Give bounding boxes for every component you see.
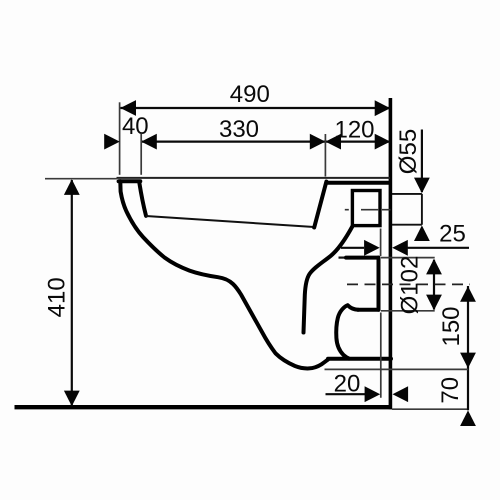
- svg-text:330: 330: [219, 116, 259, 143]
- extension line 330/120 boundary: [324, 134, 326, 177]
- dim row2 line: [141, 141, 390, 143]
- extension line front (490/40 left): [119, 102, 121, 175]
- svg-text:70: 70: [437, 377, 464, 404]
- dim 20 left arrow (points right): [365, 386, 381, 402]
- O55 outlet box behind wall: [392, 194, 422, 225]
- dim 410 top arrow: [64, 179, 80, 195]
- dim 150/70 boundary arrow (down): [460, 353, 476, 369]
- outlet top line: [346, 256, 379, 260]
- extension line 20: [380, 313, 382, 398]
- toilet rim top thin line: [117, 177, 391, 179]
- inlet spud box: [352, 191, 380, 226]
- dim O55 bottom arrow (up): [414, 225, 430, 241]
- dim O55 top arrow (down): [414, 178, 430, 194]
- dim 150 top arrow (up): [460, 286, 476, 302]
- toilet trap front curve (ends free): [304, 227, 353, 333]
- toilet front pad top thick: [119, 179, 141, 183]
- svg-text:150: 150: [438, 306, 465, 346]
- floor extension line right of wall: [392, 408, 468, 410]
- outlet end face: [377, 258, 381, 310]
- dim 25 left arrow (points right): [364, 240, 380, 256]
- toilet front outer curve: [120, 181, 328, 368]
- dim 25 left tail: [341, 247, 364, 249]
- dim 330 right arrow: [310, 134, 326, 150]
- svg-text:Ø102: Ø102: [396, 256, 423, 315]
- bottom reference extension line: [325, 368, 469, 370]
- toilet bottom back line: [328, 357, 391, 361]
- dim 20 right arrow (points left): [393, 386, 409, 402]
- dim 410 bottom arrow: [64, 391, 80, 407]
- toilet back deck thick: [327, 181, 390, 185]
- dim O55 line: [421, 130, 423, 193]
- svg-text:Ø55: Ø55: [395, 129, 422, 174]
- floor line: [15, 405, 393, 409]
- extension line 40/330 boundary: [140, 134, 142, 175]
- trap back S-curve: [336, 305, 358, 358]
- dim 25 right tail: [407, 247, 469, 249]
- dim 410 top extension line: [45, 178, 117, 180]
- dim O102 line: [433, 260, 435, 310]
- spud centerline dashes: [345, 209, 391, 211]
- O102 top extension line: [381, 257, 435, 259]
- dim 20 left tail: [326, 393, 366, 395]
- dim 490 right arrow: [375, 100, 391, 116]
- dim 120 right arrow: [375, 134, 391, 150]
- toilet inner bowl slope thin line: [146, 216, 314, 227]
- dim 410 line: [71, 180, 73, 406]
- toilet back inner wall: [314, 182, 326, 228]
- dim 40 outside left arrow: [104, 134, 120, 150]
- O102 bottom extension line: [381, 310, 435, 312]
- dim 25 right arrow (points left): [392, 240, 408, 256]
- dim 70 bottom arrow (up, below floor): [460, 410, 476, 426]
- outlet dashed centerline: [347, 283, 470, 285]
- dim 330 left arrow: [141, 134, 157, 150]
- toilet front pad inner edge: [139, 183, 146, 216]
- svg-text:490: 490: [230, 81, 270, 108]
- dim 120 left arrow: [325, 134, 341, 150]
- outlet top line thin start: [339, 257, 348, 259]
- outlet bottom step: [358, 308, 379, 312]
- svg-text:410: 410: [44, 277, 71, 317]
- dim 490 line: [120, 107, 390, 109]
- svg-text:25: 25: [439, 221, 466, 248]
- dim 150/70 line: [467, 286, 469, 410]
- extension line 25: [380, 229, 382, 257]
- svg-text:40: 40: [122, 113, 149, 140]
- dim O102 top arrow (up): [426, 259, 442, 275]
- wall line: [389, 98, 393, 409]
- dim O102 bottom arrow (down): [426, 295, 442, 311]
- dim 490 left arrow: [120, 100, 136, 116]
